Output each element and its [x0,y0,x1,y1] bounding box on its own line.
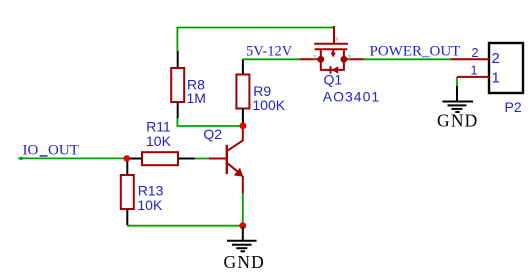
wire IO_OUT net [19,157,128,159]
Q2 emitter [228,163,239,172]
Q1 drain pin [344,58,364,60]
svg-text:OUT: OUT [48,143,79,159]
resistor R13 [121,160,134,225]
resistor R9 [236,60,249,124]
svg-text:5V-12V: 5V-12V [246,44,293,60]
svg-text:10K: 10K [137,197,163,213]
junction node R8 / R9 / Q2 collector [240,122,247,129]
Q1 gate bar [314,43,348,45]
Q1 right leg [343,49,345,59]
Q1 body diode loop [321,59,344,70]
svg-text:1M: 1M [187,90,206,106]
ground symbol right [442,86,473,112]
svg-text:2: 2 [492,50,500,67]
resistor R8 [171,51,184,118]
Q1 drain dot [341,56,348,63]
connector P2 [451,43,523,93]
wire R11 to Q2 base [194,158,209,160]
svg-text:GND: GND [224,252,266,272]
svg-text:1: 1 [492,70,500,87]
transistor Q1 [299,26,363,74]
Q1 body diode cathode bar [330,66,332,74]
ground symbol bottom [227,227,257,251]
Q2 collector [228,126,243,151]
Q2 base bar [226,145,228,174]
wire R8 bottom to node B horizontal [177,117,243,126]
transistor Q2 [209,126,243,194]
svg-text:100K: 100K [252,97,285,113]
svg-text:GND: GND [437,110,479,130]
svg-text:AO3401: AO3401 [323,89,380,105]
P2 pin 1 wire [457,76,489,78]
svg-text:P2: P2 [505,99,522,115]
svg-text:IO: IO [23,143,39,159]
wire 5V-12V net [243,58,299,61]
svg-text:Q1: Q1 [324,72,343,88]
Q1 left leg [320,49,322,59]
svg-text:1: 1 [471,64,478,78]
wire P2 pin1 corner to GND [456,77,458,87]
wire POWER_OUT net [363,58,451,60]
Q1 source pin [299,58,321,60]
Q1 gate pin [333,26,335,44]
Q1 substrate arrow [332,49,334,53]
wire top horizontal R8 to Q1 gate [177,28,334,52]
Q1 channel bar [315,48,348,50]
junction node IO_OUT / R11 / R13 [124,155,131,162]
P2 pin 2 wire [451,58,489,60]
wire bottom R13 to GND node [127,225,243,227]
Q1 source dot [317,56,324,63]
svg-text:2: 2 [472,46,479,60]
Q2 base pin [209,158,227,160]
Q1 body diode anode triangle [332,66,339,73]
wire Q2 emitter to GND node [242,194,244,227]
resistor R11 [128,152,195,165]
svg-text:POWER_OUT: POWER_OUT [370,43,461,59]
svg-text:10K: 10K [146,133,172,149]
junction node emitter / R13 / GND [239,222,246,229]
wire IO_OUT arrow tip [18,157,22,160]
svg-text:Q2: Q2 [203,126,222,142]
